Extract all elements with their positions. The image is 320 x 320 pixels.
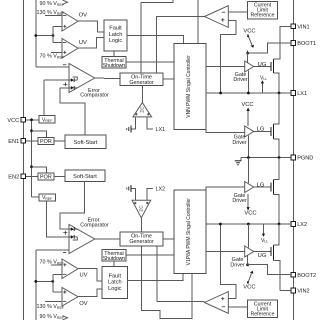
svg-text:Driver: Driver [232, 198, 247, 204]
svg-text:Driver: Driver [232, 140, 247, 146]
svg-text:Generator: Generator [129, 80, 153, 86]
svg-text:LX1: LX1 [297, 91, 307, 97]
wire VCC rail to POR1 [30, 129, 46, 137]
gate driver UG1 [233, 61, 267, 83]
wire thermal shutdown 2 to PWM controller 2 [126, 254, 174, 256]
label 130% VREF (ch2) [37, 301, 65, 310]
wire UG2 top to LX2 bus [247, 224, 249, 248]
svg-text:V1P8A PWM Singal Controller: V1P8A PWM Singal Controller [186, 198, 192, 266]
svg-text:LX2: LX2 [156, 187, 166, 193]
svg-text:VCC: VCC [7, 118, 19, 124]
node FB1 junction row [34, 26, 62, 42]
block Current Limit Reference 2 [248, 300, 278, 318]
node switch2/BOOT2/UG2 supply [246, 263, 291, 274]
svg-text:Logic: Logic [108, 286, 122, 292]
svg-text:Reference: Reference [251, 311, 275, 317]
wire node to UG driver 2 supply [247, 255, 249, 265]
pin LX2 [291, 222, 307, 229]
svg-text:Driver: Driver [233, 77, 248, 83]
wire ZC2 LX2 input [147, 187, 165, 201]
svg-text:Latch: Latch [108, 280, 122, 286]
wire PWM controller 1 to LG driver 1 [206, 129, 245, 132]
wire ZC1 LX1 input [147, 117, 165, 133]
wire POR1 to soft-start 1 [54, 140, 65, 142]
svg-text:EN2: EN2 [8, 175, 19, 181]
comparator ZC1 [133, 103, 152, 117]
wire node to UG driver 1 supply [247, 53, 249, 63]
wire PWM controller 2 to UG driver 2 [206, 251, 245, 253]
switch S1 (VCC to BOOT1) [247, 34, 254, 53]
wire VCC pin to VREF1 [26, 119, 39, 121]
svg-text:POR: POR [40, 139, 52, 145]
wire EN1 pin to POR1 [26, 140, 38, 142]
transistor HS MOSFET 1 [254, 59, 281, 93]
block PWM Signal Controller 2 [174, 190, 206, 273]
node FB2 junction row [34, 274, 62, 292]
wire FB2 vertical [35, 250, 37, 320]
label 90% VREF (ch2, cut at bottom) [40, 314, 68, 320]
comparator ZC2 [132, 200, 151, 218]
label VLL1 with arrow [260, 75, 267, 93]
wire current limit 1 output to on-time gen 1 [157, 17, 205, 73]
svg-text:Logic: Logic [109, 38, 123, 44]
svg-text:UV: UV [79, 273, 87, 279]
wire UV2 output to fault latch 2 [78, 269, 102, 281]
wire error comp 2 output to on-time generator 2 [95, 238, 120, 240]
wire error comp 2 soft-start input [60, 182, 85, 230]
block VREF2 [39, 194, 56, 201]
wire VIN1 to HS1 drain [280, 26, 291, 59]
block VREF1 [39, 116, 55, 124]
svg-text:Latch: Latch [109, 32, 123, 38]
block Thermal Shutdown (ch1) [102, 57, 126, 70]
wire OV2 output to fault latch 2 [78, 289, 102, 297]
block POR2 [38, 173, 54, 181]
svg-text:VLL: VLL [260, 75, 267, 81]
svg-text:POR: POR [40, 175, 52, 181]
comparator Error Comparator 1 [63, 64, 109, 99]
wire ZC1 output to on-time gen 1 [141, 86, 143, 103]
svg-text:VREF: VREF [42, 195, 52, 201]
wire error comp 2 minus input from FB2 [36, 250, 69, 252]
svg-text:PGND: PGND [297, 156, 313, 162]
pin EN2 [8, 174, 25, 181]
label VLL2 with arrow [261, 224, 268, 244]
ground PGND [235, 158, 241, 165]
label VCC (switch 1) [243, 29, 255, 35]
wire UG1 ground to LX bus 1 [247, 70, 249, 93]
label VCC (switch 2) [243, 284, 255, 290]
comparator Error Comparator 2 [63, 217, 109, 253]
block Soft-Start 1 [65, 135, 106, 149]
svg-text:BOOT1: BOOT1 [297, 41, 316, 47]
wire top input into PWM controller 1 [197, 0, 199, 44]
svg-text:UG: UG [258, 253, 267, 259]
pin VIN1 [291, 24, 310, 31]
wire VCC rail to POR2 [30, 165, 46, 173]
node switch1/BOOT1/UG1 supply [246, 43, 291, 54]
svg-text:OV: OV [79, 301, 88, 307]
block Fault Latch Logic (ch1) [104, 20, 127, 51]
pin LX1 [291, 91, 307, 98]
pin VIN2 [291, 288, 310, 295]
wire ZC1 ground input [127, 117, 136, 133]
wire on-time gen 2 output to PWM controller 2 [163, 238, 174, 240]
wire current limit 2 plus sense from LX bus [220, 224, 235, 299]
pin EN1 [8, 139, 25, 146]
wire ZC2 ground input [127, 185, 136, 200]
wire PWM controller 1 to UG driver 1 [206, 65, 245, 67]
block Soft-Start 2 [65, 170, 105, 182]
wire fault latch 1 to thermal shutdown 1 [113, 51, 115, 57]
svg-text:Comparator: Comparator [80, 223, 109, 229]
svg-text:Fault: Fault [109, 26, 122, 32]
block PWM Signal Controller 1 [174, 44, 206, 130]
pin BOOT1 [291, 41, 316, 48]
wire error comp 1 minus input from FB1 [36, 65, 69, 67]
transistor LS MOSFET 2 [254, 158, 279, 225]
wire thermal shutdown 1 to PWM controller 1 [126, 61, 174, 63]
block Current Limit Reference 1 [248, 1, 278, 19]
wire VCC rail to VREF2 [32, 196, 39, 198]
svg-text:LX1: LX1 [156, 127, 166, 133]
svg-text:ZC: ZC [140, 106, 145, 113]
label VCC (LG1 supply) [241, 102, 253, 108]
svg-text:OV: OV [79, 12, 88, 18]
block Thermal Shutdown 2 [102, 250, 126, 263]
comparator OV1 [62, 12, 87, 32]
wire fault latch 1 output to PWM controller 1 [127, 36, 184, 44]
wire current limit 2 output to on-time gen 2 [157, 246, 205, 302]
block POR1 [38, 138, 54, 146]
wire LX2 bus [206, 223, 291, 226]
block On-Time Generator 1 [120, 73, 163, 86]
comparator Current Limit 2 [205, 292, 229, 314]
wire POR2 to soft-start 2 [54, 175, 65, 177]
wire VCC rail vertical [30, 118, 33, 197]
wire VCC arrow to LG1 [247, 108, 250, 127]
label 130% VREF (ch1) [37, 10, 65, 16]
pin BOOT2 [291, 272, 316, 279]
svg-text:Soft-Start: Soft-Start [73, 174, 97, 180]
svg-text:VIN2: VIN2 [297, 289, 309, 295]
wire error comp 2 plus input from VREF2 [46, 201, 71, 237]
svg-text:VLL: VLL [261, 238, 268, 244]
wire VCC arrow from LG2 [247, 194, 250, 211]
svg-text:BOOT2: BOOT2 [297, 273, 316, 279]
svg-text:VREF: VREF [42, 117, 52, 123]
svg-text:VCC: VCC [244, 210, 256, 216]
label 70% VREF (ch2) [40, 260, 65, 266]
svg-text:VCC: VCC [243, 29, 255, 35]
comparator Current Limit 1 [205, 6, 229, 28]
svg-text:UG: UG [258, 62, 267, 68]
wire error comp 1 soft-start input [60, 88, 85, 135]
gate driver UG2 [230, 246, 267, 268]
comparator UV1 [62, 39, 87, 59]
wire LG1 ground to PGND bus [247, 135, 249, 157]
wire OV1 output to fault latch [78, 21, 104, 32]
wire current limit 1 plus sense from LX bus [221, 20, 236, 93]
block Fault Latch Logic (ch2) [102, 267, 127, 299]
wire on-time gen 1 output to PWM controller 1 [163, 78, 174, 80]
comparator UV2 [62, 259, 88, 279]
transistor HS MOSFET 2 [254, 224, 281, 291]
svg-text:Driver: Driver [230, 262, 245, 268]
wire UV1 output to fault latch [78, 38, 104, 49]
transistor LS MOSFET 1 [254, 93, 279, 158]
wire on-time gen 1 top input from image top [141, 0, 173, 73]
wire current limit 2 minus to reference [228, 306, 247, 308]
svg-text:VCC: VCC [243, 284, 255, 290]
svg-text:Comparator: Comparator [80, 92, 109, 98]
label 70% VREF (ch1) [40, 52, 65, 59]
wire FB1 vertical [35, 0, 37, 67]
wire LG2 ground to PGND bus [247, 158, 249, 184]
IC boundary right border [292, 0, 294, 320]
gate driver LG1 [232, 126, 265, 146]
wire fault latch 2 output to PWM controller 2 [127, 273, 183, 280]
wire VIN2 to HS2 drain [280, 290, 291, 292]
wire PWM controller 2 to LG driver 2 [206, 187, 245, 190]
pin PGND [291, 155, 313, 162]
svg-text:Shutdown: Shutdown [103, 63, 126, 69]
IC boundary left border [22, 0, 24, 320]
pin VCC [7, 118, 25, 125]
wire ZC2 output to on-time gen 2 [140, 218, 142, 232]
svg-text:Soft-Start: Soft-Start [74, 140, 98, 146]
svg-text:VIN1: VIN1 [297, 25, 309, 31]
wire current limit 1 minus to reference [228, 11, 247, 13]
gate driver LG2 [232, 182, 265, 205]
wire error comp 1 output to on-time generator 1 [95, 77, 120, 80]
svg-text:VCC: VCC [241, 102, 253, 108]
svg-text:Fault: Fault [109, 273, 122, 279]
wire LX1 bus [206, 92, 291, 95]
label 90% VREF (ch1, cut at top) [40, 0, 68, 7]
switch S2 (VCC to BOOT2) [247, 271, 254, 285]
comparator OV2 [62, 288, 88, 308]
svg-text:Generator: Generator [129, 239, 153, 245]
svg-text:LX2: LX2 [297, 222, 307, 228]
svg-text:Reference: Reference [251, 13, 275, 19]
wire EN2 pin to POR2 [26, 175, 38, 177]
wire thermal shutdown 2 to fault latch 2 [113, 261, 115, 267]
block On-Time Generator 2 [120, 232, 163, 246]
svg-text:UV: UV [79, 40, 87, 46]
wire PGND bus [241, 156, 291, 159]
svg-text:EN1: EN1 [8, 139, 19, 145]
label VCC (LG2 supply) [244, 210, 256, 216]
wire error comp 1 plus input from VREF1 [44, 80, 71, 115]
wire on-time gen 2 bottom to PWM controller 2 (staircase) [142, 246, 193, 319]
svg-text:VNN PWM Singal Controller: VNN PWM Singal Controller [186, 55, 192, 118]
svg-text:ZC: ZC [139, 205, 144, 212]
